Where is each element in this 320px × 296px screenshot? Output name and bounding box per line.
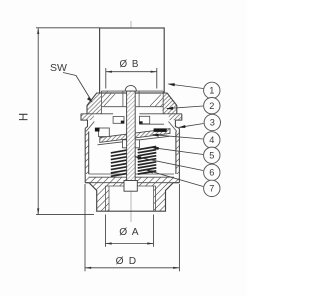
pocket seal tick left (121, 121, 124, 124)
bonnet inner top edge (101, 90, 163, 92)
shoulder line (105, 185, 155, 187)
flange top line (81, 113, 182, 115)
flange ear hatch right (169, 114, 182, 120)
hex bottom face (85, 182, 179, 184)
spring (item 5) (111, 147, 157, 177)
spring seat box on stem (123, 140, 140, 148)
svg-text:Ø D: Ø D (116, 256, 138, 267)
svg-text:3: 3 (210, 118, 215, 128)
chamber floor lines (89, 174, 174, 177)
interior hatch ticks left (102, 92, 115, 107)
spring pocket right (139, 116, 149, 124)
hex chamfer diag right (169, 122, 177, 132)
svg-text:6: 6 (209, 168, 214, 178)
body wall left (item 2 lower) (85, 128, 89, 182)
bonnet wall hatch right (162, 93, 176, 114)
flange ear outline right (175, 114, 181, 129)
svg-text:SW: SW (50, 62, 67, 74)
flange ear outline left (item 3) (81, 114, 88, 129)
adjuster nut right edge (138, 91, 140, 107)
adjuster nut left edge (122, 91, 124, 107)
leader arrowheads (134, 83, 186, 173)
disc slab (item 4) slanted (98, 129, 171, 145)
dimension H (36, 28, 100, 215)
svg-text:1: 1 (209, 86, 214, 96)
bottom hex block hatched right (154, 177, 180, 211)
flange ear hatch left (81, 114, 94, 120)
bonnet bore left line (100, 91, 102, 114)
svg-text:4: 4 (209, 135, 214, 145)
callout circles 1-7 (204, 82, 221, 196)
interior hatch ticks right (150, 95, 163, 108)
thread line left (104, 186, 106, 211)
lower body outline (85, 183, 179, 212)
svg-text:5: 5 (209, 151, 214, 161)
bottom hex block hatched left (85, 177, 109, 211)
svg-text:2: 2 (209, 101, 214, 111)
body wall right (176, 128, 180, 182)
black seal left (95, 128, 100, 132)
centerline (130, 21, 132, 222)
bore edge right (153, 186, 155, 211)
callout leaders (135, 84, 203, 187)
SW leader (63, 73, 91, 101)
black seal right (154, 128, 167, 132)
stem (item 6) (127, 91, 136, 180)
svg-text:Ø B: Ø B (120, 59, 140, 70)
guide box left of disc (99, 128, 110, 137)
bore edge left (108, 186, 110, 211)
nut bottom right segment (136, 106, 164, 108)
stem dome (125, 85, 136, 91)
svg-text:7: 7 (209, 184, 214, 194)
pocket seal tick right (139, 121, 142, 124)
svg-text:H: H (19, 113, 31, 121)
svg-text:Ø A: Ø A (119, 227, 140, 238)
hex chamfer diag left (86, 122, 94, 132)
stem bottom guide box (item 7) (124, 181, 137, 192)
spring pocket left (113, 117, 124, 124)
cap (item 1) (100, 28, 165, 93)
bonnet wall hatch left (87, 93, 101, 114)
chamber floor hatch center (109, 177, 154, 186)
pocket shelf line right (139, 123, 164, 125)
nut bottom left segment (101, 106, 126, 108)
bonnet bore right line (162, 91, 164, 114)
hex bonnet outline (item 2) (87, 93, 177, 114)
thread line right (155, 186, 157, 211)
